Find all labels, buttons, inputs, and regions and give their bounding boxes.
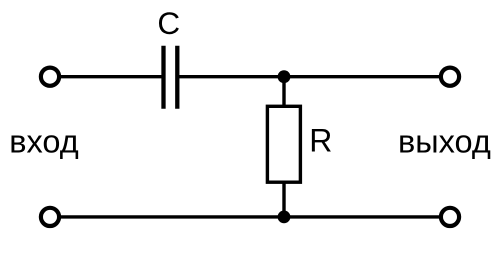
- capacitor C1 plates: [164, 46, 178, 109]
- wire top-right segment (capacitor to output terminal): [177, 75, 450, 78]
- wire top-left segment (input terminal to capacitor): [50, 75, 162, 78]
- terminal input bottom: [41, 208, 59, 226]
- wire vertical segment (top node through resistor to bottom node): [282, 77, 285, 217]
- terminal output bottom: [441, 208, 459, 226]
- wire bottom segment (common rail): [50, 215, 450, 218]
- node junction dot top: [278, 70, 291, 83]
- svg-text:C: C: [157, 5, 180, 41]
- terminal output top: [441, 68, 459, 86]
- node junction dot bottom: [278, 211, 291, 224]
- resistor R body: [267, 106, 300, 182]
- svg-text:вход: вход: [9, 123, 79, 159]
- terminal input top: [41, 68, 59, 86]
- svg-text:R: R: [309, 123, 332, 159]
- svg-text:выход: выход: [398, 123, 491, 159]
